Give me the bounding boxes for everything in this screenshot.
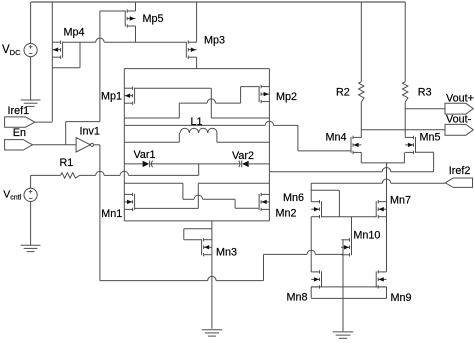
wire Mp4 gate to Mp3 gate bbox=[62, 38, 185, 42]
wire Mp5 drain down bbox=[135, 26, 137, 42]
port Iref1 bbox=[5, 117, 53, 127]
wire Mp2 gate cross bbox=[124, 87, 258, 118]
label Iref2 bbox=[449, 165, 471, 177]
wire Vcntl riser bbox=[198, 164, 200, 176]
inverter Inv1 bbox=[76, 138, 94, 152]
svg-text:Mn4: Mn4 bbox=[326, 131, 347, 143]
transistor Mn1 bbox=[124, 193, 134, 211]
svg-text:Mn2: Mn2 bbox=[276, 207, 297, 219]
label Mp3 bbox=[204, 35, 225, 47]
wire jog to En bbox=[66, 122, 100, 145]
wire Mp1 gate cross bbox=[134, 88, 269, 118]
label R2 bbox=[336, 87, 350, 99]
svg-text:R3: R3 bbox=[418, 87, 432, 99]
label Mp4 bbox=[64, 27, 85, 39]
resistor R1 bbox=[61, 173, 80, 178]
transistor Mn4 bbox=[351, 136, 361, 154]
transistor Mn6 bbox=[311, 200, 321, 218]
wire En bottom line bbox=[100, 250, 343, 280]
label R3 bbox=[418, 87, 432, 99]
svg-text:En: En bbox=[13, 127, 26, 139]
wire Mn5 gate lead bbox=[415, 151, 434, 153]
wire Mn10 rail bbox=[342, 240, 344, 298]
wire Mn8 source down bbox=[310, 287, 312, 299]
label Mn2 bbox=[276, 207, 297, 219]
label Mn1 bbox=[101, 208, 122, 220]
label R1 bbox=[60, 157, 74, 169]
wire Mn10 gate riser bbox=[351, 217, 353, 240]
label Mp1 bbox=[101, 91, 122, 103]
varactor Var1 bbox=[143, 161, 153, 168]
wire Mn8 Mn9 gate line bbox=[311, 286, 386, 288]
svg-text:R1: R1 bbox=[60, 157, 74, 169]
svg-text:Var2: Var2 bbox=[232, 150, 254, 162]
wire core left rail bbox=[123, 69, 125, 221]
wire Inv1 out bbox=[94, 145, 100, 281]
label Mn10 bbox=[353, 229, 380, 241]
wire Mn3 diode loop bbox=[184, 229, 212, 240]
wire varactor line left bbox=[124, 163, 142, 165]
label En bbox=[13, 127, 26, 139]
transistor Mn9 bbox=[376, 270, 386, 288]
wire Mp5 source up bbox=[135, 2, 137, 11]
wire Mp4 rail bbox=[51, 2, 53, 122]
wire Mp4 drain wrap bbox=[52, 42, 80, 68]
svg-text:Iref2: Iref2 bbox=[449, 165, 471, 177]
wire Mn3 rail bbox=[211, 221, 213, 329]
svg-text:Mp1: Mp1 bbox=[101, 91, 122, 103]
wire core right rail bbox=[268, 69, 270, 221]
resistor R2 bbox=[359, 2, 364, 137]
label Var1 bbox=[134, 149, 156, 161]
wire ground stem bbox=[342, 298, 344, 331]
wire diff pair tail bbox=[361, 152, 404, 201]
transistor Mp3 bbox=[186, 41, 196, 59]
wire varactor line right bbox=[248, 163, 270, 165]
wire Mp5 gate left-down bbox=[100, 11, 126, 122]
voltage source VDC symbol bbox=[24, 2, 37, 100]
transistor Mp5 bbox=[125, 9, 135, 27]
wire Mp3 drain down bbox=[196, 57, 198, 68]
svg-text:Mn3: Mn3 bbox=[216, 246, 237, 258]
svg-text:Mp3: Mp3 bbox=[204, 35, 225, 47]
resistor R3 bbox=[403, 2, 408, 137]
svg-text:Mn9: Mn9 bbox=[391, 292, 412, 304]
svg-text:Mp5: Mp5 bbox=[143, 13, 164, 25]
ground below Mn3 bbox=[202, 330, 223, 336]
svg-text:Mn1: Mn1 bbox=[101, 208, 122, 220]
transistor Mn8 bbox=[311, 270, 321, 288]
label Iref1 bbox=[8, 105, 30, 117]
port Voutm bbox=[361, 124, 473, 135]
wire Mn1 drain to Mn2 gate bbox=[124, 183, 258, 208]
wire core top line bbox=[124, 68, 269, 70]
label Mn4 bbox=[326, 131, 347, 143]
label Mn9 bbox=[391, 292, 412, 304]
wire Vcntl to R1 bbox=[31, 174, 61, 176]
svg-text:R2: R2 bbox=[336, 87, 350, 99]
transistor Mn2 bbox=[259, 193, 269, 211]
wire R1 to riser bbox=[80, 171, 199, 175]
port En bbox=[5, 140, 77, 150]
wire Mn6-Mn7 gate line bbox=[321, 216, 376, 218]
svg-text:Inv1: Inv1 bbox=[80, 126, 100, 138]
label Inv1 bbox=[80, 126, 100, 138]
wire Iref2 drop bbox=[310, 183, 312, 202]
wire right tank to Mn5 gate bbox=[269, 152, 433, 172]
svg-text:Var1: Var1 bbox=[134, 149, 156, 161]
svg-text:Mn5: Mn5 bbox=[420, 132, 441, 144]
wire Mn6 rail down bbox=[310, 217, 312, 272]
transistor Mn10 bbox=[341, 238, 351, 256]
wire Iref2 branch bbox=[311, 190, 339, 217]
svg-text:Iref1: Iref1 bbox=[8, 105, 30, 117]
svg-text:Vout+: Vout+ bbox=[446, 93, 474, 105]
svg-text:Mp4: Mp4 bbox=[64, 27, 85, 39]
label Vcntl bbox=[3, 189, 21, 202]
label Mn8 bbox=[287, 292, 308, 304]
transistor Mp2 bbox=[259, 85, 269, 103]
wire varactor line mid bbox=[150, 163, 241, 165]
inductor L1 bbox=[124, 128, 269, 142]
svg-text:Mn10: Mn10 bbox=[353, 229, 380, 241]
wire Mn9 source down bbox=[386, 287, 388, 299]
voltage source Vcntl symbol bbox=[24, 175, 37, 245]
label VDC bbox=[2, 44, 21, 57]
label Mp5 bbox=[143, 13, 164, 25]
port Iref2 bbox=[311, 178, 472, 187]
label Vout+ bbox=[446, 93, 474, 105]
wire nmos ground line bbox=[311, 297, 386, 299]
svg-text:L1: L1 bbox=[191, 116, 203, 128]
transistor Mn7 bbox=[376, 200, 386, 218]
ground below Vcntl bbox=[21, 245, 41, 251]
label Mn6 bbox=[283, 192, 304, 204]
varactor Var2 bbox=[239, 161, 249, 168]
ground below Mn8 Mn9 bbox=[333, 332, 354, 338]
wire Mn7 drain rail bbox=[386, 201, 388, 271]
label Mn3 bbox=[216, 246, 237, 258]
label L1 bbox=[191, 116, 203, 128]
wire top VDD rail bbox=[31, 1, 405, 3]
transistor Mn3 bbox=[202, 238, 212, 256]
svg-text:Mn6: Mn6 bbox=[283, 192, 304, 204]
transistor Mp1 bbox=[124, 87, 134, 105]
port Voutp bbox=[405, 103, 473, 114]
wire line2 tank-left to Mn4 gate bbox=[124, 121, 351, 151]
label Vout- bbox=[446, 113, 472, 125]
label Var2 bbox=[232, 150, 254, 162]
ground below VDC bbox=[21, 100, 41, 106]
svg-text:Vout-: Vout- bbox=[446, 113, 472, 125]
svg-text:Mn7: Mn7 bbox=[390, 194, 411, 206]
wire nmos bottom line bbox=[124, 220, 269, 222]
transistor Mn5 bbox=[405, 136, 415, 154]
transistor Mp4 bbox=[52, 41, 62, 59]
svg-text:Mn8: Mn8 bbox=[287, 292, 308, 304]
label Mp2 bbox=[276, 91, 297, 103]
label Mn7 bbox=[390, 194, 411, 206]
wire Mn2 drain to Mn1 gate bbox=[134, 183, 269, 208]
label Mn5 bbox=[420, 132, 441, 144]
svg-text:Mp2: Mp2 bbox=[276, 91, 297, 103]
wire Mp3 source up bbox=[196, 2, 198, 42]
